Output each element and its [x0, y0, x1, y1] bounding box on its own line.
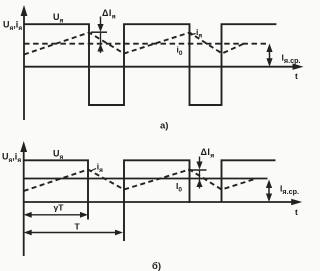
time axis t (plot a) — [24, 64, 304, 82]
label iя with leader (plot b) — [91, 162, 104, 175]
svg-text:γT: γT — [54, 203, 65, 213]
average current line Iя.ср (plot b) — [24, 178, 268, 180]
armature voltage waveform Uя (plot a) — [24, 24, 276, 105]
dashed average current line (plot a) — [24, 43, 266, 45]
ΔIя measurement arrows (plot b) — [188, 157, 207, 189]
vertical axis (plot a) — [21, 5, 28, 120]
label iя with leader (plot a) — [191, 27, 203, 40]
dashed armature current ripple iя (plot a) — [24, 33, 246, 55]
dashed armature current iя (plot b) — [24, 170, 255, 192]
svg-text:б): б) — [152, 261, 161, 271]
ΔIя measurement arrows (plot a) — [91, 17, 107, 54]
T measurement arrow — [24, 221, 123, 235]
armature voltage waveform Uя (plot b) — [24, 160, 276, 241]
svg-text:t: t — [295, 71, 298, 81]
time axis t (plot b) — [24, 199, 303, 217]
svg-text:t: t — [295, 207, 298, 217]
Iя.ср measurement arrow (plot a) — [266, 44, 272, 67]
svg-text:T: T — [75, 221, 81, 231]
Iя.ср measurement arrow (plot b) — [266, 180, 272, 203]
γT measurement arrow — [24, 203, 88, 218]
vertical axis (plot b) — [20, 141, 27, 256]
svg-text:а): а) — [160, 121, 168, 132]
